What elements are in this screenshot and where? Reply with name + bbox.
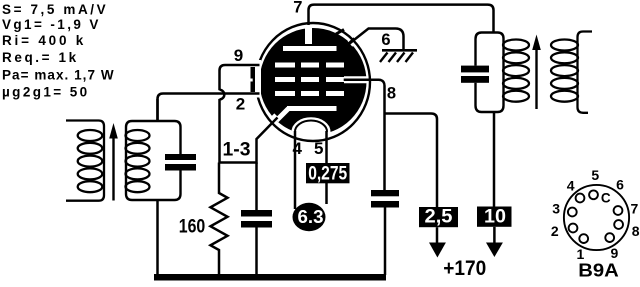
wire cathode node (pins 1-3)	[220, 118, 278, 163]
svg-text:5: 5	[591, 167, 599, 183]
tube data text block	[2, 2, 115, 100]
socket pin numbers	[551, 167, 640, 262]
value box 10 anode feed	[477, 207, 512, 227]
svg-text:Pa= max. 1,7 W: Pa= max. 1,7 W	[2, 67, 115, 82]
output tank circuit box	[476, 33, 504, 113]
svg-text:Ri= 400 k: Ri= 400 k	[2, 33, 86, 48]
white channel for pin 7 wire	[305, 25, 312, 44]
svg-text:9: 9	[234, 46, 243, 65]
arrow to +170 from 2,5	[436, 227, 439, 244]
resistor 160 cathode bias	[211, 163, 228, 276]
white channel for pin 8 wire	[344, 76, 371, 83]
grid lead bar in slot	[251, 67, 256, 92]
svg-text:10: 10	[484, 205, 506, 227]
svg-text:7: 7	[631, 201, 639, 217]
svg-text:8: 8	[387, 85, 396, 103]
value box 0,275 heater current	[306, 163, 350, 183]
input transformer primary coil	[66, 121, 104, 201]
svg-text:+170: +170	[443, 256, 486, 280]
wire pin 2 (g1) to input tank	[158, 94, 260, 122]
wire branch g2 to 2,5 dropper	[385, 114, 438, 208]
B9A base diagram socket circle	[564, 185, 629, 250]
wire pin 8 (g2) down to decoupling cap	[344, 80, 385, 190]
socket pin 8	[614, 220, 623, 229]
grid g3 dashes	[275, 63, 344, 68]
svg-text:3: 3	[552, 201, 560, 217]
white slot for grid wires (pins 9,2)	[244, 60, 261, 98]
svg-text:7: 7	[293, 0, 302, 16]
capacitor g2 decoupling	[371, 190, 399, 196]
svg-text:2: 2	[236, 95, 245, 114]
tuning arrow output transformer	[535, 48, 537, 109]
value circle 6.3 heater voltage	[293, 203, 326, 231]
svg-text:0,275: 0,275	[308, 163, 347, 185]
svg-text:5: 5	[314, 139, 323, 158]
grid g2 dashes	[275, 77, 344, 82]
wire tank top feed	[156, 99, 159, 121]
wire tank bottom to rail	[156, 200, 159, 275]
svg-text:S= 7,5 mA/V: S= 7,5 mA/V	[2, 2, 108, 17]
svg-text:B9A: B9A	[578, 259, 619, 280]
tuning arrow input transformer	[112, 133, 114, 201]
socket pin 5	[589, 190, 598, 199]
svg-text:C: C	[601, 191, 611, 206]
svg-text:4: 4	[567, 177, 575, 193]
svg-text:Vg1= -1,9 V: Vg1= -1,9 V	[2, 17, 101, 32]
wire pin 9 (g3)	[220, 65, 260, 90]
socket pin 7	[614, 206, 623, 215]
input transformer secondary coil	[126, 130, 150, 192]
wire g3 down to cathode node	[218, 99, 221, 163]
socket pin 3	[568, 208, 577, 217]
wire pin7 anode to top rail to right transformer	[309, 5, 494, 46]
cathode electrode	[287, 106, 337, 111]
svg-text:6.3: 6.3	[298, 207, 324, 227]
anode electrode	[283, 46, 337, 51]
white channel for pin 6 wire	[350, 33, 363, 44]
ground rail	[154, 274, 386, 281]
svg-text:8: 8	[632, 223, 640, 239]
ground	[380, 50, 417, 62]
heater dome arc	[295, 120, 327, 131]
wire pin 6 to ground	[350, 29, 404, 50]
wire output tank bottom to HT	[493, 112, 496, 207]
input tank circuit box	[126, 121, 181, 200]
svg-text:µg2g1= 50: µg2g1= 50	[2, 85, 90, 100]
svg-text:160: 160	[179, 217, 206, 238]
svg-text:2: 2	[551, 223, 559, 239]
rim dashes near pin 6	[336, 30, 344, 35]
capacitor cathode bypass	[255, 163, 258, 211]
value box 2,5 screen feed	[419, 207, 458, 227]
socket pin 1	[579, 234, 588, 243]
svg-text:4: 4	[292, 139, 302, 158]
tube envelope outer circle	[256, 23, 370, 141]
heater wire pin 5	[325, 131, 328, 204]
heater wire pin 4	[294, 131, 297, 209]
white cutout for heater dome	[292, 117, 331, 146]
svg-text:6: 6	[381, 31, 390, 49]
output transformer primary coil	[503, 40, 529, 102]
svg-text:6: 6	[616, 177, 624, 193]
capacitor output tank	[461, 66, 489, 73]
grid g1 dashes	[275, 91, 344, 96]
output transformer secondary coil	[551, 32, 592, 113]
wire hop over g1 wire	[220, 90, 225, 100]
arrow to +170 from 10	[493, 227, 496, 244]
socket pin 4	[576, 194, 585, 203]
socket pin 9	[605, 233, 614, 242]
capacitor input tank	[165, 154, 196, 160]
svg-text:1-3: 1-3	[223, 140, 251, 161]
socket pin 2	[569, 224, 578, 233]
svg-text:2,5: 2,5	[425, 206, 453, 228]
tube U1 black interior disc	[260, 28, 367, 135]
white channel for cathode lead	[261, 116, 277, 133]
svg-text:Req.= 1k: Req.= 1k	[2, 50, 79, 65]
